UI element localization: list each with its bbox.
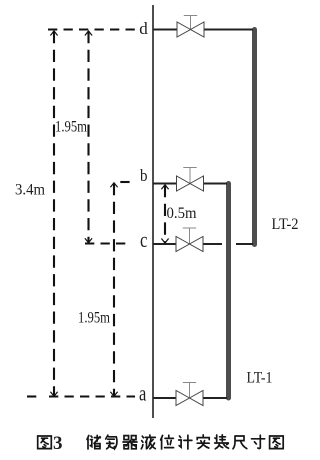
svg-text:a: a <box>139 381 146 406</box>
svg-text:b: b <box>140 166 148 185</box>
svg-text:3.4m: 3.4m <box>15 182 45 199</box>
svg-text:1.95m: 1.95m <box>78 310 110 327</box>
svg-text:LT-2: LT-2 <box>272 216 299 233</box>
svg-text:3: 3 <box>53 433 63 454</box>
svg-text:c: c <box>140 227 148 252</box>
svg-text:LT-1: LT-1 <box>247 370 273 387</box>
svg-text:0.5m: 0.5m <box>167 205 197 222</box>
svg-text:d: d <box>139 19 148 38</box>
svg-text:1.95m: 1.95m <box>55 119 87 136</box>
